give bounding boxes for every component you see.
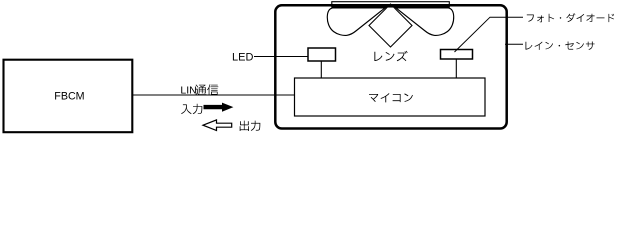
- wire: LED to microcontroller: [320, 61, 322, 79]
- label レイン・センサ (rain sensor): [526, 42, 595, 50]
- arrow: output (outline left arrow): [203, 120, 232, 131]
- lens right petal: [396, 8, 454, 36]
- svg-text:LIN: LIN: [180, 85, 196, 97]
- wire: LIN bus from FBCM to microcontroller: [133, 94, 296, 96]
- svg-text:LED: LED: [232, 52, 253, 64]
- arrow: input (solid right arrow): [204, 103, 234, 112]
- wire: photodiode callout: [455, 17, 524, 52]
- svg-text:FBCM: FBCM: [54, 90, 84, 102]
- wire: photodiode to microcontroller: [455, 59, 457, 79]
- lens left petal: [327, 8, 385, 36]
- label レンズ (lens): [374, 51, 407, 61]
- rain sensor housing box: [275, 5, 506, 128]
- LED component box: [308, 48, 336, 61]
- FBCM box: [4, 60, 133, 133]
- windshield glass: [332, 2, 450, 7]
- label 出力 (output): [240, 121, 261, 131]
- label フォト・ダイオード (photodiode): [527, 13, 614, 22]
- lens prism (diamond): [369, 4, 412, 47]
- microcontroller box: [295, 78, 486, 116]
- label マイコン (microcontroller): [369, 93, 413, 102]
- wire: LED callout line: [254, 56, 313, 58]
- label 入力 (input): [181, 104, 202, 114]
- photodiode component box: [441, 50, 473, 60]
- wire: rain sensor callout: [505, 43, 523, 45]
